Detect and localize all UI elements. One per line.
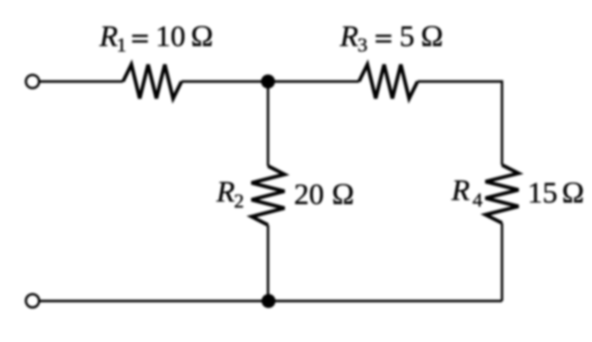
- svg-text:2: 2: [234, 191, 244, 213]
- svg-text:3: 3: [358, 35, 368, 57]
- svg-text:R: R: [339, 20, 358, 53]
- svg-text:R: R: [216, 176, 235, 209]
- svg-text:10: 10: [156, 20, 186, 53]
- svg-text:1: 1: [117, 35, 127, 57]
- svg-text:Ω: Ω: [421, 20, 444, 53]
- svg-text:R: R: [451, 174, 470, 207]
- svg-text:R: R: [99, 20, 118, 53]
- svg-text:15: 15: [528, 177, 558, 210]
- svg-text:5: 5: [400, 20, 415, 53]
- svg-text:4: 4: [473, 190, 483, 212]
- svg-text:Ω: Ω: [191, 20, 214, 53]
- svg-text:Ω: Ω: [562, 177, 585, 210]
- svg-text:20 Ω: 20 Ω: [294, 178, 355, 211]
